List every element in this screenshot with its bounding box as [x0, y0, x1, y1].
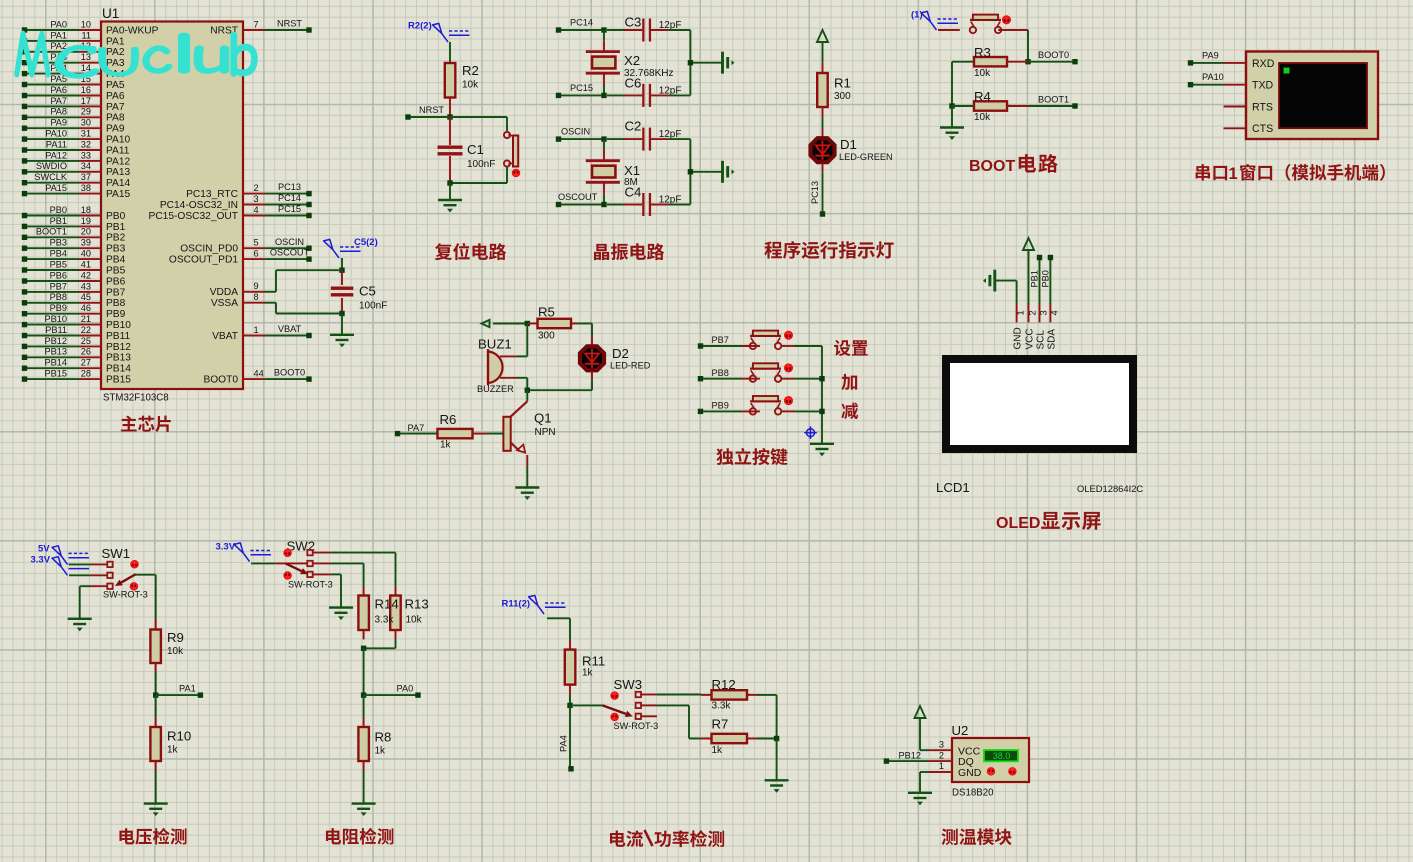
svg-text:GND: GND — [1013, 327, 1024, 349]
svg-text:PA13: PA13 — [106, 167, 130, 178]
wire flag to R2 — [449, 42, 451, 63]
svg-text:1k: 1k — [712, 745, 724, 756]
node OSCOUT terminal — [556, 192, 604, 207]
interactive marker U2 down — [988, 768, 995, 775]
MCU U1 STM32F103C8 body — [101, 6, 243, 404]
junction R13/R14 — [361, 646, 366, 651]
svg-text:PB7: PB7 — [106, 287, 126, 298]
U1 pin BOOT0 (44) to node BOOT0 — [203, 368, 311, 386]
svg-text:PB9: PB9 — [712, 401, 729, 411]
junction PC15/X2/C6 — [601, 93, 606, 98]
U2 pin 2 DQ stub — [929, 750, 952, 761]
svg-text:1: 1 — [254, 325, 259, 335]
U1 pin PB6 (42) with wire and node square — [22, 270, 126, 287]
svg-text:PC13: PC13 — [278, 182, 301, 192]
junction PA1 node — [153, 692, 158, 697]
wire power to R1 — [822, 44, 824, 63]
terminal flag R2(2) — [408, 21, 470, 43]
U1 pin PB4 (40) with wire and node square — [22, 249, 126, 266]
svg-text:100nF: 100nF — [359, 301, 387, 312]
wire C6 to ground rail with junction — [669, 60, 723, 95]
wire flag to VDDA junction — [341, 258, 343, 270]
U1 pin PA10 (31) with wire and node square — [22, 129, 131, 146]
wire R3 left to R4 row — [951, 62, 953, 106]
MCUclub watermark logo — [15, 31, 258, 78]
U1 pin BOOT1 (20) with wire and node square — [22, 227, 126, 244]
U1 pin PC13_RTC (2) to node PC13 — [186, 182, 312, 200]
junction key bus PB9 — [819, 409, 824, 414]
wire junction to ground — [776, 739, 778, 781]
U1 pin PB10 (21) with wire and node square — [22, 314, 131, 331]
node PC13 terminal under D1 — [820, 211, 825, 216]
ground for BOOT circuit — [940, 128, 964, 140]
svg-text:PA9: PA9 — [50, 118, 67, 128]
node NRST terminal — [405, 105, 450, 120]
U1 pin PB14 (27) with wire and node square — [22, 358, 131, 375]
svg-text:C1: C1 — [467, 142, 484, 157]
svg-text:C2: C2 — [625, 119, 642, 134]
svg-text:PB5: PB5 — [106, 265, 126, 276]
svg-text:PB6: PB6 — [50, 270, 67, 280]
svg-text:LED-GREEN: LED-GREEN — [839, 152, 893, 162]
svg-text:10k: 10k — [462, 80, 479, 91]
node PC14 terminal — [556, 17, 604, 32]
wire flag to R11 — [547, 618, 570, 640]
svg-text:21: 21 — [81, 314, 91, 324]
svg-text:PB3: PB3 — [50, 238, 67, 248]
svg-text:VSSA: VSSA — [211, 298, 238, 309]
svg-text:OLED12864I2C: OLED12864I2C — [1077, 483, 1143, 494]
svg-text:PA3: PA3 — [106, 58, 125, 69]
wire buzzer top pin — [517, 324, 528, 357]
terminal flag R11(2) — [502, 595, 566, 614]
wire R12 to junction — [758, 695, 777, 739]
node PB12 terminal — [884, 750, 929, 764]
svg-text:PB5: PB5 — [50, 259, 67, 269]
wire SW1 position 3 to ground — [80, 586, 90, 619]
wire SW1 common to R9 — [136, 575, 156, 619]
wire R11 to junction — [569, 695, 571, 706]
wire key PB8 to ground bus — [795, 378, 823, 380]
pin RTS stub — [1224, 106, 1247, 108]
svg-text:PA14: PA14 — [106, 178, 130, 189]
svg-text:6: 6 — [254, 249, 259, 259]
U1 pin PB13 (26) with wire and node square — [22, 347, 131, 364]
node PA4 terminal — [568, 766, 573, 771]
serial port virtual terminal (phone) box — [1246, 52, 1378, 140]
left arrow terminal for R5 — [482, 320, 490, 327]
svg-text:R14: R14 — [375, 597, 399, 612]
LCD1 pin name SCL — [1035, 330, 1046, 350]
svg-text:R2(2): R2(2) — [408, 21, 432, 32]
svg-text:VBAT: VBAT — [278, 324, 302, 334]
node PB1 terminal above OLED SCL — [1030, 255, 1043, 304]
svg-text:BOOT0: BOOT0 — [1038, 50, 1069, 60]
wire junction to PA0 node — [363, 648, 365, 695]
pin CTS stub — [1224, 127, 1247, 129]
caption resistance detection — [326, 828, 393, 845]
svg-text:BUZZER: BUZZER — [477, 384, 514, 394]
svg-text:PB4: PB4 — [50, 249, 67, 259]
svg-text:1k: 1k — [582, 668, 594, 679]
svg-text:BUZ1: BUZ1 — [478, 337, 512, 352]
wire junction to ground — [341, 314, 343, 335]
svg-text:OSCIN_PD0: OSCIN_PD0 — [180, 244, 238, 255]
U1 pin PB12 (25) with wire and node square — [22, 336, 131, 353]
svg-text:PB13: PB13 — [106, 353, 131, 364]
ground for Q1 — [515, 488, 539, 500]
wire D1 to node PC13 — [810, 172, 823, 214]
svg-text:2: 2 — [939, 750, 944, 760]
svg-text:PB9: PB9 — [106, 309, 126, 320]
wire R9 to PA1 junction — [155, 673, 157, 696]
svg-text:PB3: PB3 — [106, 244, 126, 255]
U1 pin PB0 (18) with wire and node square — [22, 205, 126, 222]
svg-text:R2: R2 — [462, 63, 479, 78]
wire to BOOT ground — [951, 106, 953, 128]
svg-text:PA0-WKUP: PA0-WKUP — [106, 25, 159, 36]
svg-text:SW1: SW1 — [102, 546, 131, 561]
caption reset circuit — [435, 243, 506, 260]
svg-text:PA7: PA7 — [106, 102, 125, 113]
svg-text:C5(2): C5(2) — [354, 237, 378, 248]
wire emitter to ground — [526, 466, 528, 488]
svg-text:PA4: PA4 — [559, 735, 569, 752]
node OSCIN terminal — [556, 127, 604, 142]
capacitor C5 100nF — [331, 270, 388, 313]
interactive marker SW1 down — [131, 583, 138, 590]
svg-text:PA6: PA6 — [50, 85, 67, 95]
svg-text:PB2: PB2 — [106, 233, 126, 244]
U1 pin PA9 (30) with wire and node square — [22, 118, 125, 135]
ground for OLED GND pin — [983, 270, 995, 292]
svg-text:PA11: PA11 — [46, 139, 67, 149]
svg-text:PA7: PA7 — [50, 96, 67, 106]
U1 pin SWDIO (34) with wire and node square — [22, 161, 131, 178]
capacitor C6 12pF — [607, 76, 681, 107]
LCD1 pin 1 stub — [1016, 304, 1026, 323]
capacitor C3 12pF — [607, 15, 681, 42]
U1 pin PA7 (17) with wire and node square — [22, 96, 125, 113]
resistor R4 10k — [952, 89, 1028, 123]
caption key add (jia) — [841, 374, 857, 390]
svg-text:17: 17 — [81, 96, 91, 106]
svg-text:GND: GND — [958, 767, 982, 779]
wire VSSA to junction — [265, 303, 342, 314]
power flag 5V — [38, 544, 89, 565]
wire C3 to ground rail — [669, 30, 691, 63]
caption temperature module — [941, 828, 1011, 845]
wire NRST to reset button — [450, 117, 507, 131]
LCD1 pin name GND — [1013, 327, 1024, 349]
U1 pin OSCOUT_PD1 (6) to node OSCOUT — [169, 248, 312, 266]
svg-text:3.3V: 3.3V — [216, 542, 236, 553]
svg-text:2: 2 — [254, 183, 259, 193]
svg-text:43: 43 — [81, 281, 91, 291]
resistor R11 1k — [565, 640, 605, 695]
svg-text:PB11: PB11 — [106, 331, 130, 342]
svg-text:R7: R7 — [712, 717, 729, 732]
svg-text:Q1: Q1 — [534, 411, 552, 426]
junction PA4 node — [567, 703, 572, 708]
svg-text:42: 42 — [81, 270, 91, 280]
svg-text:PB4: PB4 — [106, 255, 126, 266]
ground for U2 — [908, 793, 932, 805]
svg-text:28: 28 — [81, 369, 91, 379]
svg-text:R6: R6 — [440, 412, 457, 427]
node BOOT0 terminal — [1028, 50, 1078, 64]
svg-text:10k: 10k — [974, 112, 991, 123]
LCD1 pin 2 stub — [1027, 304, 1037, 323]
svg-text:300: 300 — [538, 331, 555, 342]
svg-text:32: 32 — [81, 139, 91, 149]
svg-text:44: 44 — [254, 369, 264, 379]
U1 pin PA11 (32) with wire and node square — [22, 139, 130, 156]
svg-text:18: 18 — [81, 205, 91, 215]
svg-text:X2: X2 — [624, 53, 640, 68]
svg-text:PA6: PA6 — [106, 91, 125, 102]
wire SW2 position 2 to R14 — [331, 563, 364, 586]
svg-text:11: 11 — [81, 30, 91, 40]
svg-text:PA12: PA12 — [106, 156, 130, 167]
svg-text:PB1: PB1 — [106, 222, 126, 233]
junction collector node — [525, 388, 530, 393]
wire D2 to junction — [527, 380, 592, 390]
wire R1 to D1 — [822, 118, 824, 129]
svg-text:NRST: NRST — [277, 19, 302, 29]
svg-text:R9: R9 — [167, 630, 184, 645]
svg-text:PA2: PA2 — [106, 47, 125, 58]
svg-text:RXD: RXD — [1252, 58, 1275, 70]
wire down to BOOT0 row — [1027, 30, 1029, 62]
LED D2 LED-RED — [580, 336, 651, 380]
transistor Q1 NPN — [503, 390, 555, 466]
caption independent keys — [716, 448, 787, 465]
svg-text:OSCOUT: OSCOUT — [558, 192, 598, 202]
caption OLED display — [996, 512, 1101, 532]
rotary switch SW3 SW-ROT-3 — [573, 677, 658, 731]
svg-text:PB8: PB8 — [106, 298, 126, 309]
interactive marker of key PB9 — [785, 397, 792, 404]
svg-text:PC15: PC15 — [278, 204, 301, 214]
svg-text:PB14: PB14 — [45, 358, 67, 368]
svg-text:20: 20 — [81, 227, 91, 237]
node PA0 terminal — [364, 684, 421, 698]
svg-text:PA10: PA10 — [45, 129, 67, 139]
rotary switch SW1 SW-ROT-3 — [69, 546, 148, 600]
junction key bus PB8 — [819, 376, 824, 381]
wire VDDA to junction — [265, 270, 342, 292]
interactive marker SW2 down — [284, 572, 291, 579]
wire power to U2 VCC — [920, 720, 929, 751]
wire arrow to R5 — [493, 323, 527, 325]
power symbol for U2 — [915, 706, 926, 720]
U1 pin VDDA (9) — [210, 281, 265, 298]
svg-text:D1: D1 — [840, 137, 857, 152]
svg-text:38.0: 38.0 — [993, 751, 1011, 761]
svg-text:100nF: 100nF — [467, 159, 495, 170]
caption serial window (phone side) — [1196, 164, 1385, 183]
svg-text:PA9: PA9 — [1202, 50, 1219, 60]
node PB7 terminal — [698, 335, 741, 348]
junction R4 left — [949, 103, 954, 108]
LCD1 pin 4 stub — [1049, 304, 1059, 323]
ground for SW1 — [68, 619, 92, 631]
push button PB7 with actuator — [741, 331, 795, 350]
svg-text:1k: 1k — [375, 746, 387, 757]
svg-text:PB0: PB0 — [1040, 270, 1050, 287]
svg-text:37: 37 — [81, 172, 91, 182]
svg-text:34: 34 — [81, 161, 91, 171]
U1 pin PA15 (38) with wire and node square — [22, 183, 131, 200]
wire buzzer bottom pin — [517, 378, 528, 390]
svg-text:PC15-OSC32_OUT: PC15-OSC32_OUT — [149, 211, 238, 222]
caption BOOT circuit — [969, 154, 1058, 175]
junction BOOT0 — [1025, 59, 1030, 64]
svg-text:RTS: RTS — [1252, 101, 1273, 113]
svg-text:PA12: PA12 — [45, 150, 67, 160]
interactive marker SW1 up — [131, 561, 138, 568]
caption voltage detection — [119, 828, 186, 845]
svg-text:3: 3 — [939, 739, 944, 749]
wire junction to R8 — [363, 695, 365, 717]
U1 pin PA8 (29) with wire and node square — [22, 107, 125, 124]
svg-text:PC14: PC14 — [570, 17, 593, 27]
svg-text:OLED: OLED — [996, 515, 1040, 532]
svg-text:PA1: PA1 — [106, 36, 125, 47]
svg-text:PB7: PB7 — [712, 335, 729, 345]
svg-text:PA8: PA8 — [50, 107, 67, 117]
U1 pin PB1 (19) with wire and node square — [22, 216, 126, 233]
svg-text:R12: R12 — [712, 677, 736, 692]
U2 pin 1 GND stub — [929, 761, 952, 772]
svg-text:OSCIN: OSCIN — [561, 127, 590, 137]
junction R12/R7 — [774, 736, 779, 741]
svg-text:PA0: PA0 — [50, 19, 67, 29]
svg-text:R13: R13 — [405, 597, 429, 612]
node PA7 terminal and base resistor wire — [395, 423, 438, 436]
LCD1 pin name VCC — [1024, 328, 1035, 349]
svg-text:1: 1 — [939, 761, 944, 771]
svg-text:R4: R4 — [974, 89, 991, 104]
node PB9 terminal — [698, 401, 741, 415]
svg-text:SDA: SDA — [1046, 329, 1057, 350]
svg-text:PC13_RTC: PC13_RTC — [186, 189, 238, 200]
junction NRST node — [447, 114, 452, 119]
svg-text:31: 31 — [81, 129, 91, 139]
svg-text:8: 8 — [254, 292, 259, 302]
svg-text:PB1: PB1 — [1030, 270, 1040, 287]
U1 pin PB8 (45) with wire and node square — [22, 292, 126, 309]
terminal flag C5(2) — [324, 237, 378, 258]
junction C1 bottom — [447, 180, 452, 185]
ground for current detection — [765, 780, 789, 792]
LED D1 LED-GREEN — [811, 129, 893, 173]
svg-text:1k: 1k — [167, 745, 179, 756]
wire keys ground bus — [821, 346, 823, 444]
svg-text:41: 41 — [81, 259, 91, 269]
svg-text:PB12: PB12 — [899, 750, 921, 760]
rotary switch SW2 SW-ROT-3 — [251, 539, 333, 590]
capacitor C1 100nF — [438, 117, 496, 183]
svg-text:PB12: PB12 — [45, 336, 67, 346]
U1 pin PB11 (22) with wire and node square — [22, 325, 131, 342]
svg-text:BOOT: BOOT — [969, 158, 1015, 175]
caption main chip — [121, 416, 171, 433]
svg-text:LED-RED: LED-RED — [610, 361, 651, 371]
svg-text:PA7: PA7 — [408, 423, 425, 433]
svg-text:10: 10 — [81, 19, 91, 29]
svg-text:40: 40 — [81, 249, 91, 259]
svg-text:PA1: PA1 — [179, 684, 196, 694]
wire SW3 position 1 to R12 — [657, 694, 701, 696]
svg-text:BOOT1: BOOT1 — [36, 227, 67, 237]
svg-text:300: 300 — [834, 91, 851, 102]
node PC15 terminal — [556, 83, 604, 98]
svg-text:VDDA: VDDA — [210, 287, 239, 298]
U1 pin PA12 (33) with wire and node square — [22, 150, 131, 167]
ground for R8 — [352, 804, 376, 816]
push button (BOOT) with actuator — [938, 15, 1001, 34]
U1 pin PA3 (13) with wire and node square — [22, 52, 125, 69]
svg-text:TXD: TXD — [1252, 80, 1274, 92]
wire SW3 position 2 to R7 — [657, 705, 701, 738]
svg-text:BOOT0: BOOT0 — [203, 375, 238, 386]
pin TXD stub — [1224, 84, 1247, 86]
svg-text:3.3k: 3.3k — [712, 701, 732, 712]
svg-text:16: 16 — [81, 85, 91, 95]
junction R5/BUZ1 — [525, 321, 530, 326]
resistor R6 1k — [438, 412, 504, 451]
svg-text:27: 27 — [81, 358, 91, 368]
svg-text:VBAT: VBAT — [212, 331, 238, 342]
resistor R13 10k — [390, 586, 429, 640]
svg-text:SWDIO: SWDIO — [36, 161, 67, 171]
caption key minus (jian) — [841, 403, 858, 419]
origin marker (blue crosshair) — [804, 426, 817, 439]
wire U2 GND to ground — [920, 772, 929, 793]
svg-text:SW-ROT-3: SW-ROT-3 — [103, 590, 148, 600]
power symbol for OLED VCC — [1023, 238, 1034, 252]
svg-text:PA11: PA11 — [106, 145, 130, 156]
svg-text:BOOT1: BOOT1 — [1038, 94, 1069, 104]
wire R10 to ground — [155, 771, 157, 804]
svg-text:PB1: PB1 — [50, 216, 67, 226]
wire key PB7 to ground bus — [795, 345, 823, 347]
svg-text:PC14-OSC32_IN: PC14-OSC32_IN — [160, 200, 238, 211]
ground for SW2 — [329, 608, 353, 620]
buzzer BUZ1 — [477, 337, 517, 395]
svg-text:PA9: PA9 — [106, 124, 125, 135]
svg-text:4: 4 — [1049, 310, 1059, 315]
svg-text:10k: 10k — [974, 68, 991, 79]
U1 pin PA0 (10) with wire and node square — [22, 19, 159, 36]
svg-text:PA1: PA1 — [50, 30, 67, 40]
svg-text:3.3k: 3.3k — [375, 615, 395, 626]
svg-text:PC13: PC13 — [810, 181, 820, 204]
svg-text:PC15: PC15 — [570, 83, 593, 93]
resistor R5 300 — [527, 305, 577, 342]
svg-text:10k: 10k — [406, 615, 423, 626]
caption key set (shezhi) — [834, 340, 868, 356]
svg-text:SW3: SW3 — [614, 677, 643, 692]
svg-text:2: 2 — [1027, 310, 1037, 315]
resistor R8 1k — [358, 718, 391, 771]
node PA1 terminal — [156, 684, 203, 698]
capacitor C2 12pF — [607, 119, 681, 151]
svg-text:PB12: PB12 — [106, 342, 131, 353]
ground for keys — [810, 444, 834, 456]
